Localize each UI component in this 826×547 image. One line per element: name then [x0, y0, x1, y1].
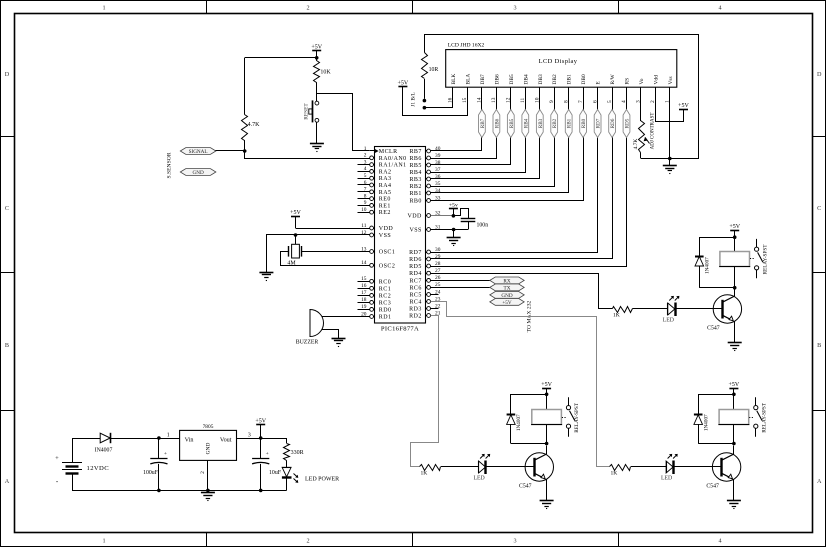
- LED D5: [667, 303, 669, 315]
- wire VSS: [267, 235, 370, 273]
- svg-text:RB7: RB7: [480, 118, 486, 128]
- svg-text:Vin: Vin: [185, 437, 194, 444]
- svg-text:RA2: RA2: [379, 169, 392, 175]
- svg-text:4.7K: 4.7K: [248, 122, 261, 128]
- svg-text:RC1: RC1: [379, 286, 391, 292]
- svg-text:RB3: RB3: [538, 118, 544, 128]
- svg-text:RE0: RE0: [379, 197, 391, 203]
- svg-text:DB5: DB5: [509, 74, 515, 84]
- svg-text:5: 5: [607, 100, 613, 103]
- svg-text:RE2: RE2: [379, 210, 391, 216]
- svg-text:RB0: RB0: [581, 118, 587, 128]
- net flag RX: [490, 277, 524, 284]
- svg-text:5: 5: [364, 173, 367, 179]
- ground: [332, 338, 346, 340]
- net flag RB1: [565, 110, 572, 138]
- svg-text:GND: GND: [206, 443, 212, 455]
- relay RL1 contacts SPST: [756, 239, 758, 247]
- crystal X1 4M: [295, 235, 297, 244]
- relay RL1 coil: [720, 252, 750, 267]
- junction: [733, 286, 737, 290]
- svg-text:LED POWER: LED POWER: [305, 476, 339, 482]
- svg-text:RB5: RB5: [409, 163, 421, 169]
- junction: [732, 442, 736, 446]
- wire RD4: [431, 274, 613, 309]
- capacitor C2 10uF: [260, 438, 262, 458]
- svg-text:C547: C547: [706, 484, 719, 490]
- net flag RB5: [507, 110, 514, 138]
- wire: [546, 446, 548, 455]
- svg-text:3: 3: [248, 432, 251, 438]
- junction: [157, 436, 161, 440]
- node SIGNAL: [180, 148, 216, 155]
- wire: [296, 228, 370, 230]
- wire TX: [431, 287, 490, 289]
- svg-text:28: 28: [435, 261, 441, 267]
- ground: [310, 143, 324, 145]
- junction: [294, 233, 298, 237]
- junction: [668, 157, 672, 161]
- svg-text:37: 37: [435, 167, 441, 173]
- junction: [243, 149, 247, 153]
- svg-text:22: 22: [435, 303, 441, 309]
- diode D1 IN4007: [100, 433, 110, 443]
- svg-text:1: 1: [102, 5, 105, 12]
- svg-text:1: 1: [167, 432, 170, 438]
- ground: [201, 492, 215, 494]
- junction: [452, 228, 456, 232]
- wire: [673, 466, 721, 468]
- wire Vo: [640, 87, 642, 121]
- junction: [545, 393, 549, 397]
- resistor R2 4.7K: [244, 58, 246, 115]
- net flag RB6: [493, 110, 500, 138]
- svg-text:GND: GND: [501, 293, 512, 299]
- wire: [733, 425, 735, 444]
- relay RL3 coil: [719, 410, 749, 425]
- net flag RD6: [609, 110, 616, 138]
- svg-text:+5V: +5V: [311, 45, 322, 51]
- transistor Q3 C547: [712, 453, 740, 481]
- svg-text:RE1: RE1: [379, 203, 391, 209]
- wire RX: [431, 280, 490, 282]
- svg-text:1N4007: 1N4007: [703, 414, 709, 431]
- svg-text:RD7: RD7: [596, 118, 602, 128]
- junction: [157, 489, 161, 493]
- svg-text:17: 17: [361, 290, 367, 296]
- svg-text:330R: 330R: [291, 450, 304, 456]
- svg-text:+5V: +5V: [290, 210, 301, 216]
- wire: [734, 321, 736, 343]
- svg-text:11: 11: [361, 223, 366, 229]
- svg-text:RS: RS: [625, 78, 631, 85]
- diode D3 1N4007: [699, 395, 734, 415]
- wire: [734, 266, 736, 287]
- ground: [727, 500, 741, 502]
- svg-text:12VDC: 12VDC: [87, 465, 110, 472]
- svg-text:RB6: RB6: [494, 118, 500, 128]
- svg-text:+5V: +5V: [502, 300, 512, 306]
- svg-text:TX: TX: [504, 285, 511, 291]
- svg-text:3: 3: [513, 5, 516, 12]
- wire RB0: [431, 88, 584, 201]
- wire RB7: [431, 88, 482, 151]
- transistor Q2 C547: [525, 453, 553, 481]
- svg-text:1K: 1K: [611, 471, 618, 477]
- svg-text:10uF: 10uF: [269, 470, 282, 476]
- svg-text:VDD: VDD: [379, 226, 394, 232]
- wire RB2: [431, 88, 555, 187]
- wire: [733, 446, 735, 455]
- junction: [259, 489, 263, 493]
- svg-text:D: D: [5, 71, 10, 78]
- svg-text:RB0: RB0: [409, 199, 421, 205]
- svg-text:DB7: DB7: [480, 74, 486, 84]
- svg-text:B: B: [5, 342, 9, 349]
- svg-text:3: 3: [513, 538, 516, 545]
- svg-text:RD5: RD5: [409, 264, 422, 270]
- transistor Q1 C547: [713, 295, 741, 323]
- wire: [425, 35, 699, 159]
- svg-text:RB3: RB3: [409, 177, 421, 183]
- junction: [545, 442, 549, 446]
- svg-text:ADJ CONTRAST: ADJ CONTRAST: [651, 113, 656, 150]
- wire: [641, 158, 698, 160]
- svg-text:2: 2: [200, 471, 206, 474]
- wire: [316, 82, 318, 101]
- wire: [216, 151, 370, 159]
- svg-text:RD6: RD6: [409, 257, 422, 263]
- wire: [441, 466, 479, 468]
- svg-text:RA1/AN1: RA1/AN1: [379, 163, 407, 169]
- svg-text:15: 15: [361, 276, 367, 282]
- svg-text:RB7: RB7: [409, 149, 421, 155]
- net flag +5V: [490, 299, 524, 306]
- junction: [315, 56, 319, 60]
- junction: [206, 489, 210, 493]
- wire: [322, 316, 370, 318]
- svg-text:RX: RX: [503, 278, 510, 284]
- svg-text:RB1: RB1: [567, 118, 573, 128]
- wire: [546, 425, 548, 444]
- relay RL2 contacts SPST: [568, 397, 570, 405]
- svg-text:+5V: +5V: [729, 382, 740, 388]
- resistor R4 4.7K ADJ CONTRAST: [639, 121, 645, 153]
- wire: [317, 94, 370, 151]
- svg-text:10R: 10R: [429, 67, 439, 73]
- net flag TX: [490, 284, 524, 291]
- wire: [486, 466, 535, 468]
- wire: [431, 229, 469, 231]
- svg-text:RD1: RD1: [379, 315, 392, 321]
- ground: [663, 165, 677, 167]
- relay RL3 contacts SPST: [755, 397, 757, 405]
- wire RB1: [431, 88, 569, 193]
- svg-text:A: A: [817, 478, 822, 485]
- svg-text:RB2: RB2: [552, 118, 558, 128]
- wire: [245, 57, 317, 59]
- wire RB4: [431, 88, 526, 173]
- wire: [734, 288, 736, 297]
- svg-text:VSS: VSS: [409, 228, 421, 234]
- svg-text:35: 35: [435, 181, 441, 187]
- svg-text:BUZZER: BUZZER: [296, 340, 319, 346]
- svg-text:3: 3: [364, 159, 367, 165]
- svg-text:LED: LED: [473, 476, 484, 482]
- connector J1 B/L jumper: [423, 99, 427, 103]
- LED D7: [666, 461, 668, 473]
- svg-text:100uF: 100uF: [143, 470, 159, 476]
- svg-text:2: 2: [306, 5, 309, 12]
- svg-text:RD6: RD6: [610, 118, 616, 128]
- svg-text:8: 8: [364, 193, 367, 199]
- wire: [237, 438, 287, 440]
- net flag RB3: [536, 110, 543, 138]
- svg-text:4.7K: 4.7K: [633, 139, 639, 150]
- svg-text:+5V: +5V: [541, 382, 552, 388]
- svg-text:6: 6: [364, 180, 367, 186]
- svg-text:RELAY-SPST: RELAY-SPST: [762, 244, 768, 275]
- svg-text:OSC2: OSC2: [379, 263, 395, 269]
- svg-text:J1 B/L: J1 B/L: [411, 92, 417, 107]
- wire: [631, 466, 666, 468]
- wire OSC1: [301, 251, 369, 253]
- wire RD7: [431, 88, 598, 253]
- svg-text:39: 39: [435, 153, 441, 159]
- wire BLK: [425, 88, 453, 108]
- svg-text:LED: LED: [663, 318, 674, 324]
- junction: [259, 436, 263, 440]
- net flag RB4: [522, 110, 529, 138]
- svg-text:4: 4: [718, 538, 721, 545]
- resistor R7 1K: [420, 465, 441, 471]
- resistor R5 330R: [286, 438, 288, 443]
- wire: [207, 460, 209, 490]
- svg-text:RD4: RD4: [409, 271, 422, 277]
- node GND: [180, 169, 216, 176]
- svg-text:PIC16F877A: PIC16F877A: [381, 326, 419, 333]
- wire: [244, 140, 246, 151]
- svg-text:+: +: [164, 451, 167, 457]
- svg-text:1K: 1K: [421, 471, 428, 477]
- ground: [259, 272, 273, 274]
- svg-text:BLA: BLA: [466, 74, 472, 85]
- svg-text:4: 4: [364, 166, 367, 172]
- svg-text:RB2: RB2: [409, 184, 421, 190]
- svg-text:30: 30: [435, 247, 441, 253]
- wire OSC2: [281, 252, 370, 266]
- svg-text:A: A: [5, 478, 10, 485]
- svg-text:RELAY-SPST: RELAY-SPST: [762, 402, 768, 433]
- net flag RB7: [479, 110, 486, 138]
- resistor R1 10K: [314, 61, 320, 83]
- LED D2 POWER: [286, 460, 288, 467]
- svg-text:RC7: RC7: [409, 278, 421, 284]
- svg-text:Vo: Vo: [639, 78, 645, 84]
- svg-text:VSS: VSS: [379, 233, 391, 239]
- svg-text:RC0: RC0: [379, 279, 391, 285]
- svg-text:SIGNAL: SIGNAL: [189, 149, 208, 155]
- svg-text:RB6: RB6: [409, 156, 421, 162]
- op-amp U1 microcontroller PIC16F877A: [375, 147, 426, 324]
- capacitor C3 100n: [454, 209, 469, 219]
- svg-text:VDD: VDD: [407, 214, 422, 220]
- capacitor C1 100uF: [158, 438, 160, 458]
- svg-text:S.SENSOR: S.SENSOR: [167, 152, 173, 178]
- svg-text:R/W: R/W: [610, 73, 616, 84]
- svg-text:DB2: DB2: [552, 74, 558, 84]
- svg-text:RC3: RC3: [379, 300, 391, 306]
- ground: [540, 500, 554, 502]
- junction: [452, 214, 456, 218]
- regulator U2 7805: [180, 430, 237, 460]
- svg-text:1: 1: [102, 538, 105, 545]
- svg-text:RB1: RB1: [409, 191, 421, 197]
- svg-text:Vdd: Vdd: [653, 75, 659, 85]
- svg-text:OSC1: OSC1: [379, 250, 395, 256]
- svg-text:+5V: +5V: [398, 80, 409, 86]
- junction: [732, 393, 736, 397]
- svg-text:19: 19: [361, 304, 367, 310]
- svg-text:100n: 100n: [477, 222, 489, 228]
- wire: [424, 79, 426, 99]
- wire RC4: [431, 302, 610, 467]
- battery BT1 12VDC: [72, 438, 74, 463]
- svg-text:Vss: Vss: [668, 76, 674, 84]
- svg-text:RC5: RC5: [409, 293, 421, 299]
- svg-text:7: 7: [578, 100, 584, 103]
- svg-text:C547: C547: [707, 326, 720, 332]
- LED D6: [478, 461, 480, 473]
- svg-text:C: C: [5, 205, 9, 212]
- svg-text:2: 2: [306, 538, 309, 545]
- wire BLA: [403, 87, 468, 116]
- relay RL2 coil: [532, 410, 562, 425]
- svg-text:D: D: [817, 71, 822, 78]
- svg-text:4: 4: [718, 5, 721, 12]
- buzzer LS1: [310, 310, 324, 337]
- svg-text:24: 24: [435, 289, 441, 295]
- wire RD2: [411, 316, 439, 467]
- svg-text:RC4: RC4: [409, 300, 421, 306]
- svg-text:RESET: RESET: [304, 103, 310, 120]
- svg-text:DB4: DB4: [523, 74, 529, 84]
- svg-text:B: B: [817, 342, 821, 349]
- svg-text:Vout: Vout: [220, 437, 232, 444]
- wire RB3: [431, 88, 540, 179]
- svg-text:RA3: RA3: [379, 176, 392, 182]
- svg-text:+: +: [266, 451, 269, 457]
- net flag RD5: [623, 110, 630, 138]
- resistor R8 1K: [610, 465, 631, 471]
- svg-text:DB0: DB0: [581, 74, 587, 84]
- ground: [447, 237, 461, 239]
- wire: [675, 308, 722, 310]
- svg-text:9: 9: [364, 200, 367, 206]
- svg-text:C: C: [817, 205, 821, 212]
- svg-text:1K: 1K: [613, 313, 620, 319]
- svg-text:RC6: RC6: [409, 285, 421, 291]
- junction: [733, 235, 737, 239]
- svg-text:16: 16: [361, 283, 367, 289]
- switch SW1 RESET: [315, 101, 319, 105]
- wire: [72, 438, 100, 440]
- svg-text:+: +: [55, 455, 59, 462]
- wire RD5: [431, 88, 627, 267]
- svg-text:+5v: +5v: [449, 202, 458, 208]
- net flag RD7: [594, 110, 601, 138]
- svg-text:10: 10: [361, 207, 367, 213]
- svg-text:DB1: DB1: [567, 74, 573, 84]
- svg-text:RD3: RD3: [409, 307, 422, 313]
- wire bottom rail: [72, 490, 287, 492]
- wire RD6: [431, 88, 613, 259]
- svg-text:7805: 7805: [203, 424, 214, 430]
- svg-text:18: 18: [361, 297, 367, 303]
- svg-text:MCLR: MCLR: [379, 149, 398, 155]
- svg-text:RC2: RC2: [379, 293, 391, 299]
- net flag RB0: [580, 110, 587, 138]
- svg-text:7: 7: [364, 187, 367, 193]
- resistor R6 1K: [613, 307, 633, 313]
- resistor R3 10R: [422, 53, 428, 79]
- svg-text:BLK: BLK: [451, 74, 457, 85]
- svg-text:RD2: RD2: [409, 314, 422, 320]
- svg-text:RB5: RB5: [509, 118, 515, 128]
- svg-text:C547: C547: [519, 484, 532, 490]
- ground: [728, 342, 742, 344]
- wire Vdd: [656, 88, 684, 122]
- diode D1 1N4007: [700, 238, 735, 257]
- svg-text:GND: GND: [192, 170, 203, 176]
- net flag RB2: [551, 110, 558, 138]
- svg-text:RB4: RB4: [409, 170, 421, 176]
- svg-text:DB3: DB3: [538, 74, 544, 84]
- wire Vss: [669, 87, 671, 165]
- svg-text:IN4007: IN4007: [95, 448, 113, 454]
- svg-text:RD0: RD0: [379, 307, 392, 313]
- wire: [546, 479, 548, 501]
- svg-text:+5V: +5V: [678, 103, 689, 109]
- svg-text:RB4: RB4: [523, 118, 529, 128]
- wire: [453, 230, 455, 238]
- wire: [431, 215, 454, 217]
- svg-text:1N4007: 1N4007: [705, 257, 711, 274]
- wire: [633, 308, 668, 310]
- wire RB5: [431, 88, 511, 165]
- svg-text:10K: 10K: [320, 70, 331, 76]
- wire: [316, 122, 318, 143]
- svg-text:RD7: RD7: [409, 250, 422, 256]
- svg-text:LED: LED: [661, 476, 672, 482]
- svg-text:DB6: DB6: [494, 74, 500, 84]
- wire: [322, 330, 339, 339]
- wire: [111, 438, 180, 440]
- svg-text:LCD JHD 16X2: LCD JHD 16X2: [448, 42, 485, 48]
- svg-text:LCD Display: LCD Display: [539, 58, 578, 65]
- net flag GND: [490, 292, 524, 299]
- svg-text:RA4: RA4: [379, 183, 392, 189]
- svg-text:1N4007: 1N4007: [516, 414, 522, 431]
- svg-text:RD5: RD5: [625, 118, 631, 128]
- svg-text:RA5: RA5: [379, 190, 392, 196]
- wire: [733, 479, 735, 501]
- svg-text:RA0/AN0: RA0/AN0: [379, 156, 407, 162]
- wire RB6: [431, 88, 497, 159]
- svg-text:2: 2: [364, 153, 367, 159]
- svg-text:+5V: +5V: [729, 224, 740, 230]
- diode D2 1N4007: [511, 395, 547, 415]
